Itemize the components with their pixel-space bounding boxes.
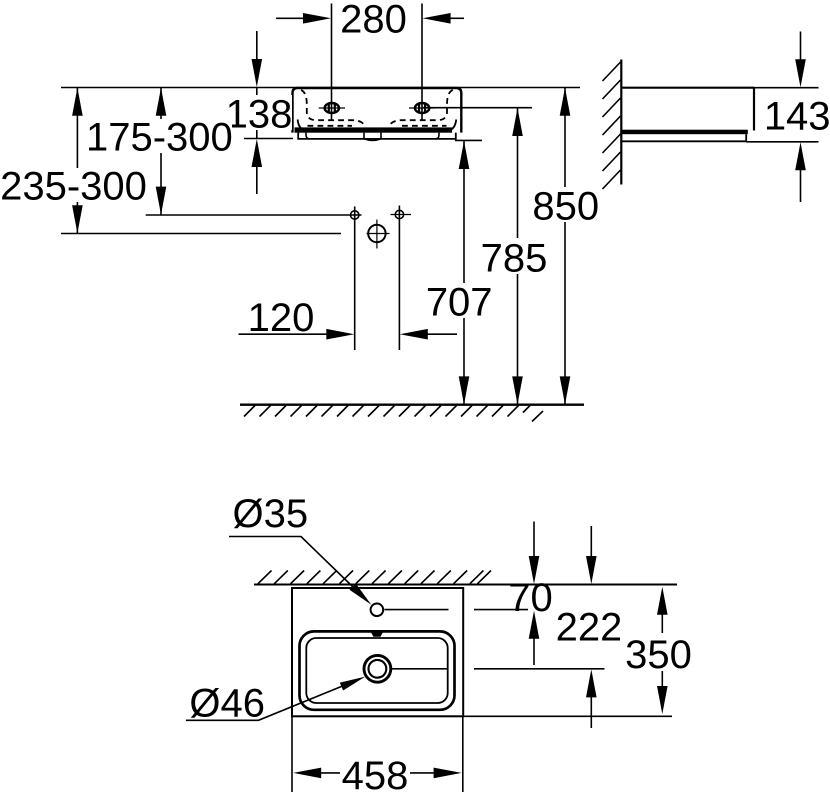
svg-text:785: 785 xyxy=(481,237,548,281)
dim 785 top arrow xyxy=(512,108,523,136)
right fixing hole slot bars xyxy=(418,105,420,112)
front view bottom lip outline xyxy=(298,133,456,139)
dim 707 vertical shaft xyxy=(463,141,465,405)
dim 70 bottom arrow xyxy=(533,637,535,665)
side view lip right edge xyxy=(745,134,747,141)
hidden interior contour left (dashed) xyxy=(301,90,365,127)
lip center tab xyxy=(364,139,381,141)
faucet hole vertical tick xyxy=(376,220,378,249)
overflow notch xyxy=(371,632,383,637)
dim text 175-300 xyxy=(86,119,232,153)
dim 280 left arrow xyxy=(276,17,305,19)
side view rim shadow band xyxy=(621,130,748,135)
dim 143 top arrow xyxy=(800,32,802,62)
top view inner basin inner ring xyxy=(306,638,447,703)
faucet hole circle xyxy=(368,225,385,242)
fixing holes level line xyxy=(146,214,362,216)
hidden interior floor line right (dashed) xyxy=(402,125,447,127)
dim text 458 xyxy=(340,756,410,792)
top view wall line xyxy=(254,584,677,586)
dim text 785 xyxy=(477,238,549,274)
top reference line (basin top level) xyxy=(61,87,580,89)
side view lip bottom xyxy=(621,140,746,142)
ground line xyxy=(240,404,584,406)
drain outer circle xyxy=(364,655,391,682)
faucet level line xyxy=(61,233,341,235)
dim 707 bottom arrow xyxy=(459,376,470,404)
lip seam mid-left xyxy=(363,133,365,139)
right screw hole centre tick xyxy=(391,214,412,216)
dim text 350 xyxy=(620,633,696,671)
svg-text:280: 280 xyxy=(340,0,407,42)
svg-text:143: 143 xyxy=(764,95,830,139)
svg-text:120: 120 xyxy=(248,296,315,340)
right screw vertical line xyxy=(398,206,400,351)
dim 458 line xyxy=(318,772,437,774)
leader line O46 xyxy=(186,685,345,720)
dim 235-300 top arrow xyxy=(72,88,83,116)
dim text 235-300 xyxy=(3,168,147,202)
dim 138 top arrow xyxy=(256,31,258,60)
dim 175-300 bottom arrow xyxy=(156,187,167,215)
left screw vertical line xyxy=(354,207,356,351)
svg-text:850: 850 xyxy=(532,185,599,229)
dim 850 vertical shaft xyxy=(564,88,566,405)
left fixing hole oval xyxy=(325,103,339,113)
front view rim shadow band xyxy=(295,127,453,132)
lip seam left xyxy=(306,133,310,139)
basin bottom extension line xyxy=(463,715,672,717)
dim 707 horizontal arrow xyxy=(426,333,457,335)
lip bottom extension line (707 top reference) xyxy=(455,139,482,141)
dim 175-300 top arrow xyxy=(156,88,167,116)
dim 458 right extension line xyxy=(462,716,464,792)
front view basin outline xyxy=(293,88,462,133)
wall screw hole left xyxy=(351,211,359,219)
dim 707 top arrow xyxy=(459,141,470,169)
right fixing hole oval xyxy=(415,103,429,113)
dim 458 right arrow xyxy=(434,768,462,779)
right fixing hole centre line xyxy=(409,107,435,109)
faucet hole circle (top view) xyxy=(371,604,384,617)
lip seam right xyxy=(435,133,439,139)
dim 222 bottom arrow xyxy=(590,695,592,728)
side view basin top edge xyxy=(621,87,754,89)
svg-text:138: 138 xyxy=(226,93,293,137)
dim 120 line and arrow xyxy=(239,333,329,335)
svg-text:235-300: 235-300 xyxy=(0,165,147,209)
dim 138 bottom reference line xyxy=(244,138,293,140)
left fixing hole centre line xyxy=(319,107,345,109)
left fixing hole slot bars xyxy=(328,105,330,112)
dim 785 bottom arrow xyxy=(512,376,523,404)
drain inner circle xyxy=(369,660,387,678)
dim 138 shaft xyxy=(256,88,258,139)
dim text 138 xyxy=(229,95,292,130)
svg-text:Ø46: Ø46 xyxy=(189,682,265,726)
dim 143 bottom arrow xyxy=(800,170,802,202)
svg-text:222: 222 xyxy=(556,606,623,650)
side view wall line xyxy=(620,60,622,185)
ground hatching xyxy=(244,406,543,422)
hidden interior contour right (dashed) xyxy=(389,90,453,127)
top view inner basin outer ring xyxy=(300,631,455,709)
lip seam mid-right xyxy=(380,133,382,139)
dim 350 top arrow xyxy=(657,587,668,615)
dim 458 left arrow xyxy=(293,768,321,779)
front view right bottom corner arc xyxy=(446,120,456,132)
svg-text:458: 458 xyxy=(342,754,409,795)
svg-text:70: 70 xyxy=(508,576,553,620)
dim 350 shaft xyxy=(661,600,663,700)
dim 350 bottom arrow xyxy=(657,686,668,714)
top view wall hatching xyxy=(258,571,491,584)
dim 235-300 shaft xyxy=(76,88,78,234)
dim text 707 xyxy=(422,283,494,318)
wall screw hole right xyxy=(395,210,403,218)
dim 280 extension line right xyxy=(421,4,423,122)
svg-text:350: 350 xyxy=(625,633,692,677)
dim 222 top arrow xyxy=(590,526,592,558)
dim 280 right arrow xyxy=(449,17,464,19)
dim text 850 xyxy=(529,187,601,222)
dim 138 bottom arrow xyxy=(256,166,258,194)
leader line O35 xyxy=(229,537,353,588)
fixing holes extension line (785 top reference) xyxy=(423,107,532,109)
dim 235-300 bottom arrow xyxy=(72,205,83,233)
drain level line xyxy=(392,668,449,670)
faucet hole level line xyxy=(385,609,449,611)
dim 143 top extension line xyxy=(754,87,819,89)
dim 850 bottom arrow xyxy=(560,376,571,404)
svg-text:707: 707 xyxy=(426,281,493,325)
dim 850 top arrow xyxy=(560,88,571,116)
svg-text:Ø35: Ø35 xyxy=(232,492,308,536)
dim 143 bottom extension line xyxy=(746,141,818,143)
side view wall hatching xyxy=(603,62,621,189)
hidden interior floor line left (dashed) xyxy=(308,125,353,127)
dim 70 top arrow xyxy=(533,522,535,559)
svg-text:175-300: 175-300 xyxy=(86,116,233,160)
front view left bottom corner arc xyxy=(298,120,308,132)
side view basin right edge xyxy=(753,88,755,131)
faucet hole horizontal tick xyxy=(367,233,390,235)
dim 280 extension line left xyxy=(331,4,333,122)
dim 785 vertical shaft xyxy=(517,108,519,405)
top view basin rectangle xyxy=(292,588,463,716)
dim 458 left extension line xyxy=(291,716,293,792)
dim 175-300 shaft xyxy=(160,88,162,215)
